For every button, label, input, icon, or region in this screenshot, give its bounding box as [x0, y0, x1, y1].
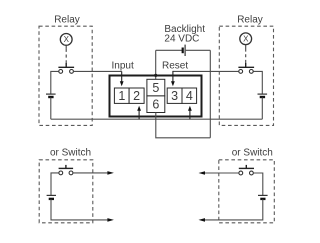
pushbutton actuator bar (left relay contact) — [58, 63, 74, 67]
relay coil lamp X (left) — [60, 34, 72, 46]
wire: right relay contact to Reset corner — [173, 70, 239, 72]
bottom-left switch dashed enclosure — [39, 160, 93, 223]
terminal 2 box — [129, 88, 144, 103]
wire: battery down and right (bottom-left) — [51, 199, 108, 220]
terminal 1 box — [114, 88, 129, 103]
junction dot at terminal 5 entry — [154, 74, 157, 77]
wire: left contact output (bottom-right) — [205, 172, 239, 174]
battery B5 short plate — [260, 198, 265, 200]
battery B4 short plate — [49, 198, 54, 200]
svg-text:Relay: Relay — [237, 15, 263, 26]
terminal 6 box — [147, 96, 165, 113]
battery B4 (bottom-left) long plate — [47, 194, 56, 196]
timer unit outer box U1 — [110, 76, 202, 117]
contact circles (left relay switch) — [59, 70, 74, 74]
wire: rail up into terminal 4 with arrow — [188, 106, 192, 119]
svg-text:or Switch: or Switch — [50, 147, 91, 158]
battery B3 24VDC short plate — [182, 48, 184, 54]
svg-text:6: 6 — [152, 98, 159, 112]
dashed mechanical link (right relay) — [245, 49, 247, 64]
wire: left contact to battery (left relay) — [51, 71, 59, 93]
arrow to terminal (bottom-right lower wire) — [199, 218, 206, 222]
wire: terminal 6 down and across to backlight return — [156, 113, 211, 138]
terminal 3 box — [167, 88, 182, 103]
svg-text:or Switch: or Switch — [232, 147, 273, 158]
wire: backlight right side down — [209, 50, 211, 138]
wire: right contact to battery (right relay) — [254, 71, 263, 93]
wire: rail up into terminal 2 with arrow — [137, 106, 141, 119]
battery B2 short plate — [260, 96, 265, 98]
wire: input drop into terminal 1 with arrow — [120, 71, 124, 86]
contact circles (right relay switch) — [239, 70, 253, 74]
dashed mechanical link (left relay) — [65, 49, 67, 63]
pushbutton actuator bar (bottom-left switch) — [59, 165, 74, 169]
battery B2 (right relay) long plate — [258, 93, 268, 95]
terminal 4 box — [182, 88, 197, 103]
right relay dashed enclosure — [219, 26, 273, 125]
wire: right contact output (bottom-left) — [73, 172, 107, 174]
svg-text:X: X — [243, 35, 249, 44]
pushbutton actuator bar (right relay contact) — [238, 63, 254, 67]
relay coil lamp X (right) — [240, 33, 252, 45]
wire: left relay contact output to Input corner — [74, 70, 122, 72]
wire: backlight battery right segment — [186, 49, 211, 51]
battery B1 short plate — [48, 96, 53, 98]
bottom-right switch dashed enclosure — [219, 160, 274, 223]
wire: left contact to battery (bottom-left) — [51, 173, 59, 195]
battery B5 (bottom-right) long plate — [258, 194, 268, 196]
wire: reset drop into terminal 3 with arrow — [171, 71, 175, 86]
wire: battery down and left (bottom-right) — [205, 199, 263, 220]
contact circles (bottom-left switch) — [59, 171, 73, 175]
svg-text:X: X — [64, 35, 70, 44]
wire: backlight battery left segment — [156, 49, 182, 51]
wire: battery to common rail (left relay) — [50, 97, 52, 119]
battery B3 24VDC long plate — [184, 45, 186, 56]
contact circles (bottom-right switch) — [239, 171, 253, 175]
wire: battery to common rail (right relay) — [261, 97, 263, 119]
svg-text:24 VDC: 24 VDC — [164, 34, 199, 45]
arrow to terminal (bottom-left upper wire) — [107, 171, 114, 175]
svg-text:Relay: Relay — [54, 15, 80, 26]
wire: right contact to battery (bottom-right) — [254, 173, 263, 195]
svg-text:3: 3 — [171, 89, 178, 103]
battery B1 (left relay) long plate — [46, 93, 56, 95]
svg-text:Reset: Reset — [162, 61, 188, 72]
terminal 5 box — [147, 79, 165, 96]
svg-text:4: 4 — [186, 89, 193, 103]
svg-text:1: 1 — [118, 89, 125, 103]
svg-text:2: 2 — [133, 89, 140, 103]
left relay dashed enclosure — [39, 26, 92, 125]
common bottom rail wire — [51, 118, 262, 120]
mechanical link stub from lamp — [65, 45, 67, 49]
svg-text:5: 5 — [152, 81, 159, 95]
arrow to terminal (bottom-left lower wire) — [107, 218, 114, 222]
pushbutton actuator bar (bottom-right switch) — [239, 165, 254, 169]
mechanical link stub from lamp (right) — [245, 45, 247, 49]
arrow to terminal (bottom-right upper wire) — [199, 171, 206, 175]
svg-text:Input: Input — [112, 61, 134, 72]
wire: backlight to terminal 5 — [155, 50, 157, 79]
